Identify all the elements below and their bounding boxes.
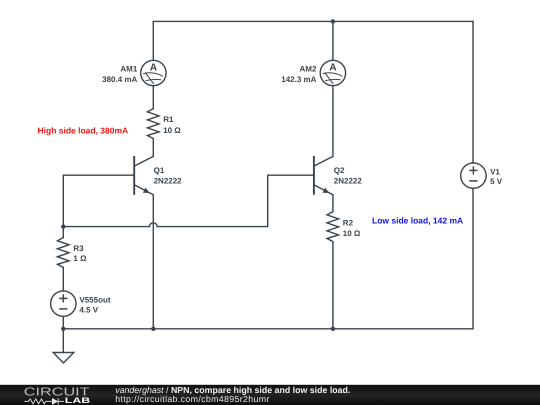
wire V1 bottom [472,188,474,329]
wire AM1 to R1 [152,86,154,109]
svg-text:5 V: 5 V [490,177,503,186]
wire node to Q2 base with hop [63,175,314,226]
ammeter AM1 [141,60,166,85]
node left junction [61,224,65,228]
wire Q1 emitter down [152,195,154,329]
svg-text:Low side load, 142 mA: Low side load, 142 mA [372,216,463,226]
svg-text:High side load, 380mA: High side load, 380mA [38,126,129,136]
wire top rail [153,20,473,22]
svg-text:10 Ω: 10 Ω [343,229,361,238]
svg-text:V1: V1 [490,168,500,177]
transistor Q1 [134,156,153,195]
voltage source V555out [51,291,76,316]
wire R1 to Q1 collector [152,139,154,157]
wire AM1 top [152,21,154,60]
svg-text:http://circuitlab.com/cbm4895r: http://circuitlab.com/cbm4895r2humr [115,394,270,404]
wire AM2 top [332,21,334,60]
wire Q2 emitter to R2 [332,195,334,212]
resistor R2 [327,212,339,242]
wire R3 to V555out [62,268,64,291]
svg-text:10 Ω: 10 Ω [163,126,181,135]
node R2 bottom junction [331,327,335,331]
node bottom left junction [61,327,65,331]
svg-text:Q1: Q1 [154,166,165,175]
wire V1 top [472,21,474,163]
node Q1 emitter junction [151,327,155,331]
wire AM2 to Q2 collector [332,86,334,157]
wire bottom rail [63,328,473,330]
ground [53,353,74,364]
resistor R1 [147,109,159,139]
svg-text:R1: R1 [163,115,174,124]
resistor R3 [57,238,69,268]
svg-text:1 Ω: 1 Ω [73,254,87,263]
wire V555out to ground [62,316,64,352]
footer bar [0,385,540,405]
wire R2 to bottom rail [332,242,334,329]
svg-text:2N2222: 2N2222 [334,176,363,185]
ammeter AM2 [320,60,345,85]
wire R3 top lead [62,227,64,238]
svg-text:2N2222: 2N2222 [154,176,183,185]
voltage source V1 [461,163,486,188]
svg-text:LAB: LAB [65,396,91,405]
footer logo resistor-diode icon [25,398,65,404]
svg-text:4.5 V: 4.5 V [79,305,98,314]
svg-text:A: A [150,63,158,74]
svg-text:V555out: V555out [79,296,110,305]
svg-text:R3: R3 [73,244,84,253]
svg-text:AM2: AM2 [300,65,317,74]
node top junction [331,19,335,23]
svg-text:Q2: Q2 [334,166,345,175]
svg-text:R2: R2 [343,218,354,227]
wire left vertical to node [62,175,64,226]
svg-text:AM1: AM1 [120,65,137,74]
transistor Q2 [314,156,333,195]
wire Q1 base [63,174,134,176]
svg-text:380.4 mA: 380.4 mA [102,75,137,84]
svg-text:142.3 mA: 142.3 mA [281,75,316,84]
svg-text:A: A [329,63,337,74]
